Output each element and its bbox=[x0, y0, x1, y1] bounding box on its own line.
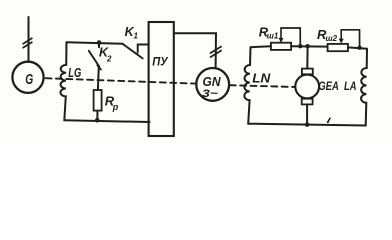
svg-text:GN: GN bbox=[203, 75, 222, 89]
svg-text:3~: 3~ bbox=[202, 88, 219, 100]
svg-text:ш2: ш2 bbox=[326, 34, 338, 43]
svg-text:ш1: ш1 bbox=[267, 32, 279, 41]
svg-text:GEA: GEA bbox=[318, 79, 339, 93]
svg-text:1: 1 bbox=[134, 32, 139, 41]
svg-text:G: G bbox=[25, 72, 33, 88]
svg-text:2: 2 bbox=[106, 55, 112, 64]
svg-text:р: р bbox=[112, 102, 119, 112]
svg-text:LN: LN bbox=[252, 72, 271, 86]
svg-text:ПУ: ПУ bbox=[152, 57, 169, 69]
svg-text:LA: LA bbox=[344, 79, 357, 93]
svg-text:LG: LG bbox=[68, 66, 81, 80]
